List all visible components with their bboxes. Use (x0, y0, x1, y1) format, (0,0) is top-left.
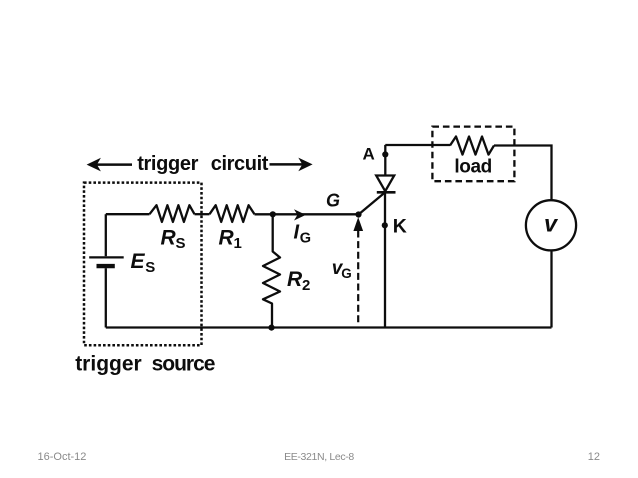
resistor RS (150, 205, 195, 222)
svg-text:E: E (131, 250, 146, 273)
svg-text:I: I (294, 222, 300, 244)
svg-text:K: K (393, 216, 407, 238)
svg-text:12: 12 (588, 451, 600, 463)
SCR anode lead (384, 145, 386, 176)
svg-text:G: G (341, 266, 352, 281)
wire: top-left segment (battery to RS) (106, 213, 150, 215)
svg-text:source: source (152, 352, 215, 375)
svg-text:R: R (161, 226, 177, 249)
wire: bottom rail (106, 326, 552, 328)
battery ES (89, 214, 124, 327)
node: R2/bottom-wire junction (268, 325, 274, 331)
wire: R1 to gate node (255, 213, 359, 215)
load dashed box (432, 127, 514, 182)
trigger source dotted box (84, 183, 202, 346)
annotation arrow right (trigger circuit) (270, 158, 313, 172)
svg-text:2: 2 (302, 277, 310, 294)
wire: anode to load (385, 144, 450, 146)
svg-text:A: A (363, 145, 375, 164)
wire: source bottom lead (550, 251, 552, 327)
thyristor SCR (359, 145, 396, 328)
svg-text:G: G (300, 231, 311, 247)
SCR cathode lead (384, 192, 386, 328)
label: trigger source (75, 352, 215, 375)
resistor R1 (210, 205, 255, 222)
annotation: IG current arrowhead (294, 209, 306, 220)
resistor R2 (263, 214, 280, 327)
battery top lead (105, 214, 107, 256)
node A (anode) (382, 151, 388, 157)
svg-text:1: 1 (234, 235, 242, 252)
label RS (161, 226, 186, 252)
annotation: vG dashed arrow (353, 217, 363, 322)
annotation arrow left (trigger circuit) (87, 158, 132, 172)
node G (gate) (355, 211, 361, 217)
node: R1/R2 junction (270, 211, 276, 217)
svg-text:trigger: trigger (75, 352, 142, 375)
SCR gate lead (359, 192, 386, 214)
label R1 (219, 226, 242, 252)
svg-text:R: R (219, 226, 235, 249)
svg-text:R: R (287, 268, 303, 291)
voltage source V (526, 200, 576, 250)
label vG (332, 258, 352, 281)
svg-text:16-Oct-12: 16-Oct-12 (38, 451, 87, 463)
wire: RS to R1 (195, 213, 210, 215)
label: trigger circuit (137, 153, 269, 175)
battery bottom lead (105, 268, 107, 327)
wire: load to source top (494, 146, 552, 200)
svg-text:S: S (176, 235, 186, 252)
resistor load (450, 137, 494, 155)
label ES (131, 250, 156, 276)
node K (cathode) (382, 222, 388, 228)
battery long plate (89, 256, 124, 258)
label IG (294, 222, 312, 247)
svg-text:EE-321N, Lec-8: EE-321N, Lec-8 (284, 451, 354, 463)
svg-text:S: S (145, 259, 155, 276)
SCR cathode bar (377, 191, 396, 194)
label R2 (287, 268, 310, 294)
svg-text:G: G (326, 191, 340, 211)
battery short thick plate (97, 264, 115, 268)
svg-text:load: load (454, 156, 491, 177)
svg-text:trigger: trigger (137, 153, 198, 175)
SCR triangle (376, 176, 394, 192)
svg-text:v: v (544, 211, 559, 237)
svg-text:circuit: circuit (211, 153, 269, 175)
